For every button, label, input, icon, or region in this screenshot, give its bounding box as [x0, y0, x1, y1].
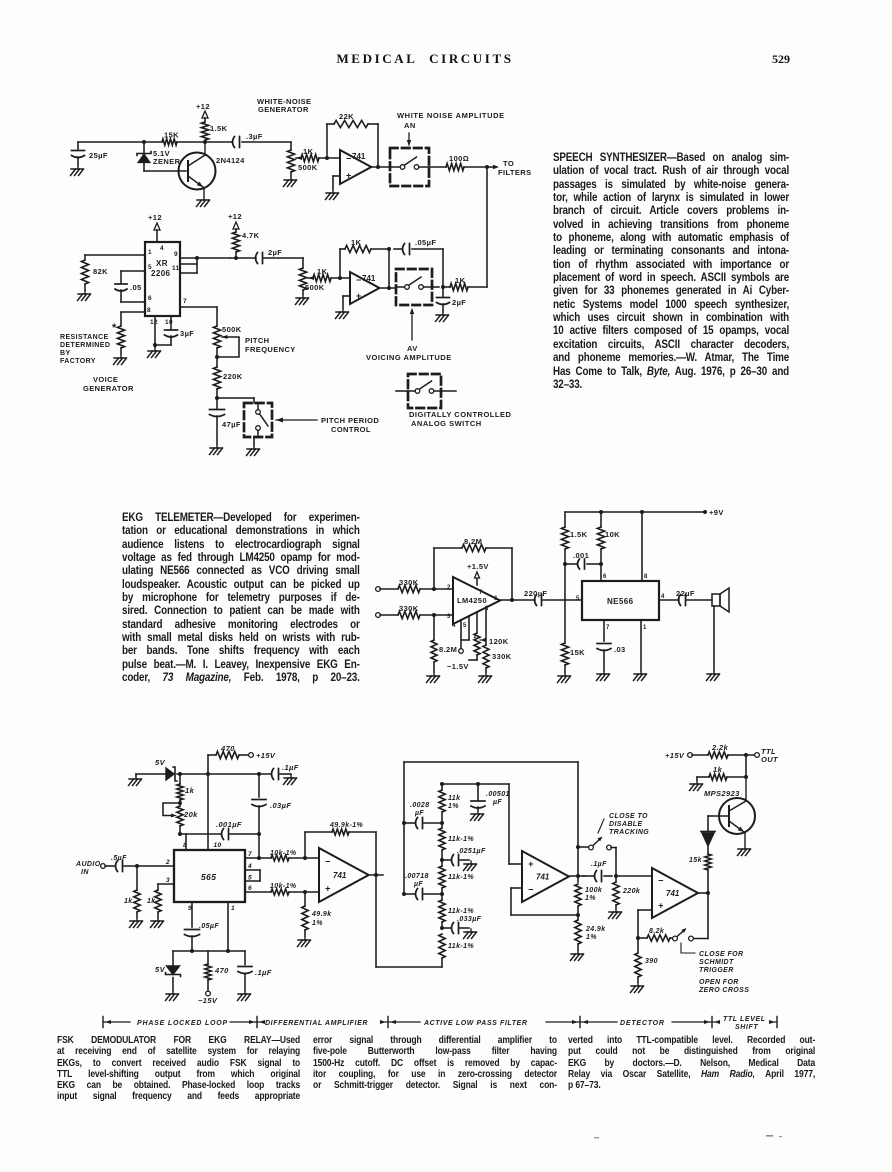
svg-text:11: 11	[172, 265, 180, 272]
svg-text:8: 8	[147, 307, 151, 314]
svg-text:4: 4	[160, 245, 164, 252]
svg-text:49.9k: 49.9k	[311, 911, 332, 918]
svg-text:OPEN FOR: OPEN FOR	[699, 979, 739, 986]
svg-text:TRIGGER: TRIGGER	[699, 967, 734, 974]
svg-text:+: +	[325, 884, 331, 894]
svg-text:15k: 15k	[689, 857, 703, 864]
svg-text:9: 9	[174, 251, 178, 258]
svg-text:3: 3	[166, 877, 170, 884]
svg-text:−1.5V: −1.5V	[447, 662, 469, 671]
svg-text:3: 3	[447, 614, 451, 620]
svg-text:1K: 1K	[351, 238, 362, 247]
svg-text:7: 7	[606, 625, 610, 631]
svg-text:10K: 10K	[605, 530, 620, 539]
svg-text:10k-1%: 10k-1%	[270, 883, 297, 890]
svg-text:GENERATOR: GENERATOR	[83, 384, 134, 393]
svg-text:µF: µF	[413, 881, 423, 888]
svg-text:1: 1	[643, 625, 647, 631]
svg-text:5: 5	[148, 264, 152, 271]
svg-text:RESISTANCE: RESISTANCE	[60, 334, 109, 341]
svg-text:VOICING AMPLITUDE: VOICING AMPLITUDE	[366, 353, 452, 362]
svg-text:10: 10	[214, 842, 222, 849]
svg-text:2: 2	[165, 859, 170, 866]
svg-text:220K: 220K	[223, 372, 243, 381]
svg-text:6: 6	[248, 885, 252, 892]
svg-text:741: 741	[666, 889, 680, 898]
svg-text:9: 9	[188, 905, 192, 912]
svg-text:XR: XR	[156, 259, 168, 268]
svg-text:741: 741	[352, 152, 366, 161]
svg-text:7: 7	[248, 851, 252, 858]
svg-text:SHIFT: SHIFT	[735, 1024, 758, 1031]
svg-text:TO: TO	[503, 159, 514, 168]
svg-text:470: 470	[220, 744, 235, 753]
svg-text:+: +	[356, 291, 361, 301]
svg-text:500K: 500K	[305, 283, 325, 292]
svg-text:100k: 100k	[585, 887, 603, 894]
svg-text:VOICE: VOICE	[93, 375, 118, 384]
svg-text:11k: 11k	[448, 795, 461, 802]
svg-text:.00718: .00718	[405, 873, 429, 880]
svg-text:47µF: 47µF	[222, 420, 241, 429]
svg-text:1K: 1K	[455, 276, 466, 285]
svg-text:+12: +12	[148, 213, 162, 222]
svg-text:390: 390	[645, 958, 658, 965]
svg-text:330K: 330K	[399, 578, 419, 587]
svg-text:5V: 5V	[155, 965, 166, 974]
svg-text:1k: 1k	[124, 898, 133, 905]
svg-text:741: 741	[362, 274, 376, 283]
svg-text:220k: 220k	[622, 888, 641, 895]
svg-text:1%: 1%	[448, 803, 459, 810]
svg-text:ZENER: ZENER	[153, 157, 181, 166]
svg-text:FACTORY: FACTORY	[60, 358, 96, 365]
svg-text:3µF: 3µF	[180, 329, 194, 338]
svg-text:2N4124: 2N4124	[216, 156, 245, 165]
svg-text:ANALOG SWITCH: ANALOG SWITCH	[411, 419, 482, 428]
svg-text:5: 5	[576, 596, 580, 602]
svg-text:.0028: .0028	[410, 802, 430, 809]
svg-text:WHITE NOISE AMPLITUDE: WHITE NOISE AMPLITUDE	[397, 111, 505, 120]
svg-text:+15V: +15V	[665, 751, 685, 760]
svg-text:8: 8	[644, 574, 648, 580]
svg-text:2: 2	[447, 585, 451, 591]
svg-text:1k: 1k	[147, 898, 156, 905]
svg-text:.05µF: .05µF	[415, 238, 436, 247]
svg-text:−15V: −15V	[198, 996, 218, 1005]
svg-text:DISABLE: DISABLE	[609, 821, 643, 828]
svg-text:1k: 1k	[185, 786, 195, 795]
svg-text:1.5K: 1.5K	[570, 530, 588, 539]
svg-text:1: 1	[473, 634, 477, 640]
svg-text:741: 741	[333, 871, 347, 880]
svg-text:8.2M: 8.2M	[439, 645, 457, 654]
svg-text:8: 8	[183, 842, 187, 849]
svg-text:2.2k: 2.2k	[711, 743, 729, 752]
svg-text:−: −	[325, 857, 331, 867]
svg-text:+1.5V: +1.5V	[467, 562, 489, 571]
svg-text:565: 565	[201, 872, 216, 882]
svg-text:CLOSE TO: CLOSE TO	[609, 813, 648, 820]
svg-text:DIFFERENTIAL AMPLIFIER: DIFFERENTIAL AMPLIFIER	[265, 1020, 368, 1027]
svg-text:1: 1	[231, 905, 235, 912]
svg-text:ACTIVE LOW PASS FILTER: ACTIVE LOW PASS FILTER	[423, 1020, 528, 1027]
svg-text:741: 741	[536, 873, 550, 882]
svg-text:.3µF: .3µF	[246, 132, 263, 141]
svg-text:5V: 5V	[155, 758, 166, 767]
svg-text:IN: IN	[81, 869, 89, 876]
svg-text:SCHMIDT: SCHMIDT	[699, 959, 734, 966]
svg-text:470: 470	[214, 966, 229, 975]
svg-text:4: 4	[661, 594, 665, 600]
svg-text:TTL LEVEL: TTL LEVEL	[723, 1016, 766, 1023]
svg-text:11k-1%: 11k-1%	[448, 874, 474, 881]
svg-text:+: +	[528, 859, 534, 869]
svg-text:25µF: 25µF	[89, 151, 108, 160]
svg-text:15K: 15K	[164, 131, 179, 140]
svg-text:120K: 120K	[489, 637, 509, 646]
svg-text:11k-1%: 11k-1%	[448, 908, 474, 915]
svg-text:FREQUENCY: FREQUENCY	[245, 345, 296, 354]
svg-text:AN: AN	[404, 121, 416, 130]
svg-text:MPS2923: MPS2923	[704, 789, 740, 798]
svg-text:.1µF: .1µF	[591, 861, 607, 868]
svg-text:100Ω: 100Ω	[449, 154, 469, 163]
svg-text:CONTROL: CONTROL	[331, 425, 371, 434]
svg-text:OUT: OUT	[761, 755, 779, 764]
svg-text:1K: 1K	[303, 147, 314, 156]
svg-text:PITCH: PITCH	[245, 336, 270, 345]
svg-text:GENERATOR: GENERATOR	[258, 105, 309, 114]
svg-text:2µF: 2µF	[452, 298, 466, 307]
svg-text:*: *	[112, 322, 117, 334]
svg-text:+9V: +9V	[709, 508, 724, 517]
svg-text:12: 12	[150, 319, 158, 326]
svg-text:1%: 1%	[312, 920, 323, 927]
svg-text:PITCH PERIOD: PITCH PERIOD	[321, 416, 379, 425]
svg-text:82K: 82K	[93, 267, 108, 276]
svg-text:.0251µF: .0251µF	[457, 848, 486, 855]
svg-text:7: 7	[183, 298, 187, 305]
svg-text:7: 7	[479, 590, 483, 596]
svg-text:20k: 20k	[183, 810, 198, 819]
svg-text:.03: .03	[614, 645, 626, 654]
svg-text:+: +	[346, 171, 351, 181]
svg-text:.03µF: .03µF	[270, 801, 291, 810]
svg-text:22K: 22K	[339, 112, 354, 121]
svg-text:µF: µF	[492, 799, 502, 806]
svg-text:10k-1%: 10k-1%	[270, 850, 297, 857]
svg-text:1.5K: 1.5K	[210, 124, 228, 133]
svg-text:8.2k: 8.2k	[649, 928, 665, 935]
svg-text:5: 5	[248, 875, 252, 882]
svg-text:4: 4	[247, 863, 252, 870]
svg-text:220µF: 220µF	[524, 589, 547, 598]
svg-text:+12: +12	[228, 212, 242, 221]
svg-text:22µF: 22µF	[676, 589, 695, 598]
svg-text:−: −	[658, 876, 664, 886]
svg-text:.00501: .00501	[486, 791, 510, 798]
svg-text:11k-1%: 11k-1%	[448, 836, 474, 843]
svg-text:BY: BY	[60, 350, 71, 357]
svg-text:NE566: NE566	[607, 597, 634, 606]
svg-text:24.9k: 24.9k	[585, 926, 606, 933]
svg-text:+: +	[658, 901, 664, 911]
svg-text:330K: 330K	[492, 652, 512, 661]
svg-text:−: −	[356, 275, 361, 285]
svg-text:6: 6	[603, 574, 607, 580]
svg-text:500K: 500K	[298, 163, 318, 172]
svg-text:TRACKING: TRACKING	[609, 829, 649, 836]
svg-text:PHASE LOCKED LOOP: PHASE LOCKED LOOP	[137, 1020, 228, 1027]
svg-text:5: 5	[463, 623, 467, 629]
svg-text:LM4250: LM4250	[457, 596, 487, 605]
svg-text:.033µF: .033µF	[457, 916, 482, 923]
svg-text:FILTERS: FILTERS	[498, 168, 532, 177]
svg-text:1k: 1k	[713, 765, 723, 774]
svg-text:.05µF: .05µF	[199, 923, 219, 930]
svg-text:1%: 1%	[585, 895, 596, 902]
svg-text:1K: 1K	[317, 267, 328, 276]
svg-text:2µF: 2µF	[268, 248, 282, 257]
svg-text:DIGITALLY CONTROLLED: DIGITALLY CONTROLLED	[409, 410, 511, 419]
svg-text:CLOSE FOR: CLOSE FOR	[699, 951, 743, 958]
svg-text:µF: µF	[414, 810, 424, 817]
svg-text:+12: +12	[196, 102, 210, 111]
svg-text:.05: .05	[130, 283, 142, 292]
svg-text:2206: 2206	[151, 269, 171, 278]
svg-text:4.7K: 4.7K	[242, 231, 260, 240]
svg-text:4: 4	[452, 623, 456, 629]
svg-text:+15V: +15V	[256, 751, 276, 760]
svg-text:1%: 1%	[586, 934, 597, 941]
svg-text:DETECTOR: DETECTOR	[620, 1020, 665, 1027]
svg-text:11k-1%: 11k-1%	[448, 943, 474, 950]
svg-text:6: 6	[494, 596, 498, 602]
svg-text:.5µF: .5µF	[111, 855, 127, 862]
svg-text:49.9k-1%: 49.9k-1%	[329, 822, 364, 829]
svg-text:500K: 500K	[222, 325, 242, 334]
svg-text:−: −	[346, 154, 351, 164]
svg-text:1: 1	[148, 249, 152, 256]
svg-text:15K: 15K	[570, 648, 585, 657]
svg-text:330K: 330K	[399, 604, 419, 613]
svg-text:ZERO CROSS: ZERO CROSS	[698, 987, 749, 994]
svg-text:AV: AV	[407, 344, 418, 353]
svg-text:8.2M: 8.2M	[464, 537, 482, 546]
svg-text:AUDIO: AUDIO	[75, 861, 101, 868]
svg-text:.1µF: .1µF	[255, 968, 272, 977]
svg-text:6: 6	[148, 295, 152, 302]
svg-text:.001µF: .001µF	[216, 820, 242, 829]
svg-text:10: 10	[165, 319, 173, 326]
svg-text:−: −	[528, 884, 534, 894]
svg-text:DETERMINED: DETERMINED	[60, 342, 110, 349]
svg-text:.001: .001	[573, 551, 589, 560]
svg-text:.1µF: .1µF	[282, 763, 299, 772]
